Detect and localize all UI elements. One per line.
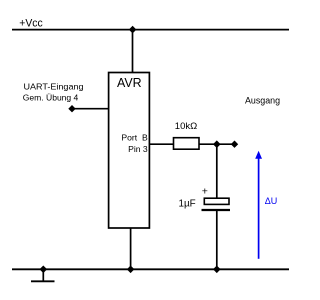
svg-text:+Vcc: +Vcc [19, 17, 43, 29]
ground [31, 269, 55, 281]
node capacitor ground junction [213, 266, 221, 274]
wire UART input [72, 108, 109, 110]
node Vcc junction [129, 26, 137, 34]
wire output junction to capacitor [216, 144, 218, 198]
svg-text:UART-Eingang: UART-Eingang [24, 81, 84, 91]
wire Vcc to AVR [132, 30, 134, 73]
capacitor C1 [202, 198, 231, 210]
svg-text:10kΩ: 10kΩ [175, 121, 197, 132]
svg-text:+: + [202, 186, 208, 198]
svg-text:Ausgang: Ausgang [245, 96, 280, 106]
node Ausgang terminal [231, 141, 238, 148]
svg-text:Port B: Port B [121, 133, 148, 143]
node AVR ground junction [127, 266, 135, 274]
pin label Port B Pin 3 [121, 133, 148, 154]
svg-text:AVR: AVR [117, 75, 142, 90]
svg-text:Gem. Übung 4: Gem. Übung 4 [23, 93, 79, 103]
node output junction [213, 140, 221, 148]
svg-text:1µF: 1µF [179, 198, 196, 209]
label UART-Eingang Gem. Übung 4 [23, 81, 84, 102]
wire AVR to ground rail [130, 228, 132, 269]
node UART terminal [68, 105, 75, 112]
ground rail [12, 268, 289, 270]
node ground rail / ground symbol [40, 266, 48, 274]
svg-text:Pin 3: Pin 3 [128, 144, 148, 154]
wire capacitor to ground rail [216, 210, 218, 269]
arrow ΔU [255, 151, 262, 259]
IC U1 AVR [109, 73, 150, 229]
+Vcc rail [12, 29, 289, 31]
wire R1 to output [199, 143, 236, 145]
svg-text:ΔU: ΔU [265, 196, 278, 206]
wire Port B to R1 [149, 143, 173, 145]
resistor R1 [174, 138, 200, 150]
